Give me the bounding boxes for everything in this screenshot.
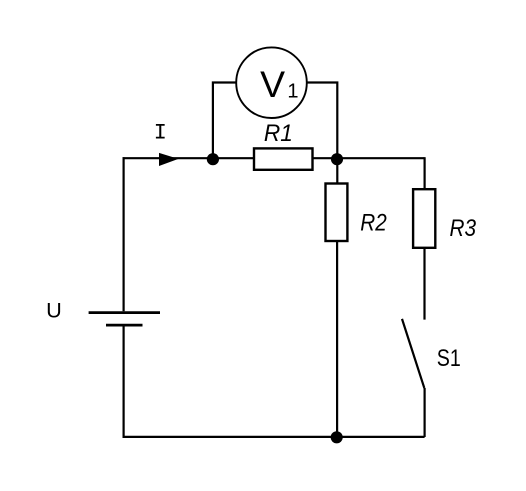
node junction dot middle (331, 153, 343, 165)
node junction dot bottom (331, 431, 343, 443)
wire voltmeter left lead (213, 83, 237, 159)
wire left vertical (top-left corner down to battery) (122, 157, 124, 311)
svg-text:V: V (260, 63, 285, 105)
battery U long plate (89, 311, 160, 314)
svg-text:1: 1 (287, 80, 298, 102)
wire R2 top lead (336, 158, 338, 183)
wire bottom rail (123, 436, 425, 438)
voltmeter V1 circle (236, 47, 307, 118)
svg-text:R2: R2 (360, 209, 387, 236)
node junction dot left (207, 153, 219, 165)
resistor R3 body (413, 189, 435, 248)
current arrow I (159, 153, 178, 166)
svg-text:I: I (154, 121, 167, 146)
wire R3 branch top vertical (424, 157, 426, 189)
wire voltmeter right lead (307, 83, 337, 159)
wire battery bottom to bottom-left corner (122, 327, 124, 438)
wire R3 bottom lead (423, 248, 425, 320)
wire top right horizontal to R3 branch (337, 157, 424, 159)
wire top horizontal (left corner to R1) (123, 157, 255, 159)
svg-text:R3: R3 (450, 215, 477, 242)
wire R1 right to junction (313, 157, 338, 159)
resistor R2 body (326, 184, 348, 242)
svg-text:R1: R1 (264, 120, 293, 147)
resistor R1 body (254, 148, 313, 169)
wire switch bottom lead (424, 388, 426, 437)
switch S1 blade (402, 319, 424, 388)
battery U short plate (106, 324, 143, 327)
wire R2 bottom lead down to bottom rail (336, 241, 338, 437)
svg-text:S1: S1 (437, 345, 461, 372)
svg-text:U: U (46, 298, 62, 323)
